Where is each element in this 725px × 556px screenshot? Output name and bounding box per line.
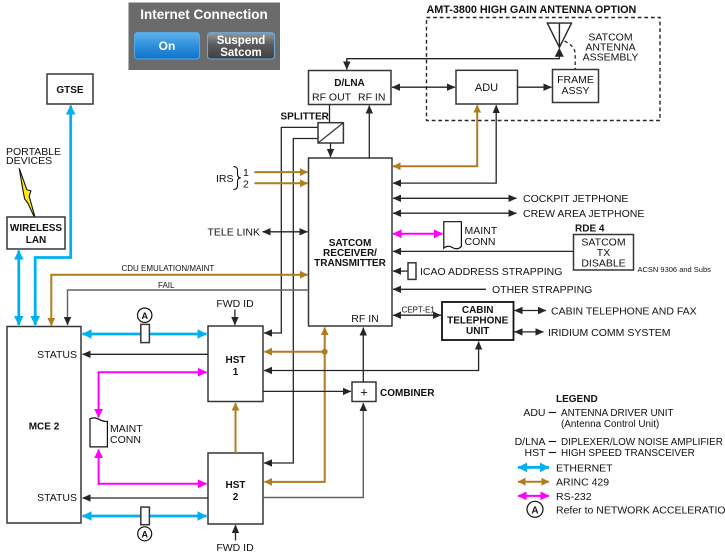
svg-text:A: A	[531, 505, 538, 516]
svg-text:Suspend: Suspend	[217, 35, 266, 47]
svg-text:IRIDIUM COMM SYSTEM: IRIDIUM COMM SYSTEM	[548, 327, 671, 339]
wire COMBINER to SATCOM RF IN	[362, 328, 364, 383]
svg-text:SPLITTER: SPLITTER	[281, 112, 330, 123]
svg-text:ANTENNA DRIVER UNIT: ANTENNA DRIVER UNIT	[561, 408, 673, 419]
svg-text:A: A	[141, 529, 148, 539]
wire cabin telephone and fax	[515, 310, 547, 312]
svg-text:D/LNA: D/LNA	[334, 78, 365, 89]
svg-text:2: 2	[233, 492, 239, 503]
svg-text:CABIN TELEPHONE AND FAX: CABIN TELEPHONE AND FAX	[551, 306, 697, 318]
svg-text:CONN: CONN	[110, 434, 141, 446]
svg-text:LAN: LAN	[26, 235, 47, 246]
svg-text:FWD ID: FWD ID	[216, 298, 254, 310]
wire RF OUT to splitter	[329, 105, 331, 123]
AMT-3800 dashed option box	[427, 18, 661, 121]
WIRELESS LAN box	[7, 217, 65, 249]
svg-text:COCKPIT JETPHONE: COCKPIT JETPHONE	[523, 193, 628, 205]
wire splitter line 2 to HST2	[264, 139, 318, 464]
svg-text:RDE 4: RDE 4	[575, 224, 605, 235]
legend arinc arrow	[518, 481, 549, 483]
wire CTU bottom to HST1	[264, 342, 479, 371]
wire FAIL	[68, 290, 309, 325]
wire HST1 to COMBINER	[263, 390, 351, 392]
svg-text:2: 2	[243, 179, 249, 191]
wire SATCOM right to ADU (arinc)	[393, 105, 477, 166]
svg-text:FAIL: FAIL	[158, 281, 175, 290]
svg-text:CREW AREA JETPHONE: CREW AREA JETPHONE	[523, 208, 644, 220]
arinc junction node	[322, 349, 328, 355]
legend rs-232 arrow	[518, 495, 549, 497]
svg-text:CEPT-E1: CEPT-E1	[402, 305, 436, 314]
wire SATCOM right to ADU (black)	[393, 105, 496, 183]
svg-text:Satcom: Satcom	[220, 47, 262, 59]
SPLITTER box	[318, 123, 343, 143]
svg-text:1: 1	[233, 367, 239, 378]
wire arinc junction down to HST2	[265, 352, 325, 482]
svg-text:Internet Connection: Internet Connection	[140, 7, 268, 22]
wire IRS 2	[254, 182, 307, 184]
ICAO connector	[408, 263, 416, 280]
svg-text:CONN: CONN	[465, 236, 496, 248]
svg-text:RF IN: RF IN	[351, 313, 378, 325]
wire cockpit jetphone	[393, 197, 517, 199]
ADU box	[456, 70, 518, 104]
wire SATCOM top to D/LNA RF IN	[368, 106, 370, 159]
wire TELE LINK	[263, 231, 308, 233]
wire crew area jetphone	[393, 212, 517, 214]
svg-text:ARINC 429: ARINC 429	[556, 477, 609, 489]
svg-text:FWD ID: FWD ID	[216, 542, 254, 554]
svg-text:ETHERNET: ETHERNET	[556, 463, 613, 475]
svg-text:DISABLE: DISABLE	[581, 258, 625, 270]
svg-text:ADU: ADU	[475, 82, 498, 94]
wire arinc junction up to SATCOM	[324, 328, 326, 352]
maint conn document (left)	[90, 418, 143, 447]
maint conn document (right)	[444, 222, 498, 249]
wire MCE2 to HST1 (ethernet)	[83, 333, 207, 336]
connector on ethernet 1	[141, 324, 150, 342]
wire MCE2 to HST2 (ethernet)	[83, 515, 207, 518]
svg-text:STATUS: STATUS	[37, 349, 77, 361]
svg-text:AMT-3800 HIGH GAIN ANTENNA OPT: AMT-3800 HIGH GAIN ANTENNA OPTION	[427, 4, 637, 16]
wire HST1 status to MCE2	[83, 353, 209, 355]
wire HST2 to COMBINER bottom	[263, 403, 363, 498]
svg-text:TRANSMITTER: TRANSMITTER	[314, 258, 386, 269]
svg-text:DEVICES: DEVICES	[6, 155, 52, 167]
PORTABLE DEVICES label	[6, 146, 61, 167]
svg-text:ACSN 9306 and Subs: ACSN 9306 and Subs	[638, 265, 712, 274]
svg-text:ICAO ADDRESS STRAPPING: ICAO ADDRESS STRAPPING	[420, 266, 562, 278]
svg-text:GTSE: GTSE	[56, 85, 84, 96]
wire wireless lan to GTSE (ethernet)	[35, 106, 70, 326]
svg-text:+: +	[360, 385, 368, 400]
wire D/LNA top to antenna	[347, 57, 560, 70]
legend circled A	[527, 501, 543, 517]
svg-text:UNIT: UNIT	[466, 326, 489, 337]
svg-text:LEGEND: LEGEND	[556, 394, 598, 405]
wire iridium	[515, 331, 544, 333]
D/LNA box	[309, 71, 392, 105]
svg-text:HST: HST	[226, 355, 246, 366]
LEGEND	[515, 394, 723, 459]
svg-text:DIPLEXER/LOW NOISE AMPLIFIER: DIPLEXER/LOW NOISE AMPLIFIER	[561, 437, 723, 448]
SATCOM TX DISABLE box	[574, 235, 634, 271]
wire satcom tx disable	[393, 250, 574, 252]
FWD ID arrow into HST2	[235, 525, 237, 541]
antenna symbol	[547, 23, 571, 47]
svg-text:OTHER STRAPPING: OTHER STRAPPING	[492, 284, 592, 296]
internet connection panel	[129, 3, 281, 71]
svg-text:TELE LINK: TELE LINK	[208, 227, 261, 239]
CABIN TELEPHONE UNIT box	[442, 302, 514, 340]
wire other strapping	[393, 288, 486, 290]
svg-text:HIGH SPEED TRANSCEIVER: HIGH SPEED TRANSCEIVER	[561, 448, 695, 459]
wire CDU emulation (arinc)	[51, 275, 307, 326]
Suspend Satcom button	[208, 33, 275, 60]
wire ADU to FRAME ASSY	[518, 86, 552, 88]
wire HST2 status to MCE2	[83, 497, 209, 499]
wire arinc junction to HST1	[265, 351, 325, 353]
HST 2 box	[208, 453, 263, 524]
wire splitter line 1 to HST1	[264, 127, 318, 333]
SATCOM ANTENNA ASSEMBLY label	[583, 32, 639, 64]
wire ICAO	[393, 270, 408, 272]
svg-text:RF IN: RF IN	[358, 92, 385, 104]
svg-text:HST: HST	[525, 447, 547, 459]
circled A bottom	[138, 527, 152, 541]
lightning bolt	[19, 168, 36, 221]
svg-text:IRS: IRS	[216, 173, 234, 185]
svg-text:A: A	[141, 311, 148, 321]
svg-text:STATUS: STATUS	[37, 492, 77, 504]
circled A top	[138, 308, 152, 322]
svg-text:ASSY: ASSY	[561, 85, 589, 97]
wire D/LNA to ADU	[392, 86, 455, 88]
svg-text:WIRELESS: WIRELESS	[10, 223, 63, 234]
svg-text:On: On	[159, 39, 176, 53]
svg-text:ASSEMBLY: ASSEMBLY	[583, 51, 639, 63]
wire RS232 to HST1	[99, 372, 207, 417]
wire HST2 top to HST1 bottom (arinc)	[235, 403, 237, 453]
connector on ethernet 2	[141, 507, 150, 525]
dashed link antenna to frame assy	[565, 41, 576, 69]
svg-text:RS-232: RS-232	[556, 491, 592, 503]
svg-text:1: 1	[243, 167, 249, 179]
IRS label and brace	[216, 167, 249, 191]
svg-text:CDU EMULATION/MAINT: CDU EMULATION/MAINT	[122, 264, 215, 273]
wire RS232 maint conn right	[393, 233, 443, 235]
svg-text:COMBINER: COMBINER	[380, 388, 435, 399]
svg-text:TELEPHONE: TELEPHONE	[447, 316, 508, 327]
svg-text:RF OUT: RF OUT	[312, 92, 352, 104]
SATCOM RECEIVER/TRANSMITTER box	[309, 158, 393, 326]
COMBINER box	[352, 382, 435, 402]
svg-text:CABIN: CABIN	[462, 305, 494, 316]
GTSE box	[47, 74, 93, 104]
legend ethernet arrow	[518, 466, 549, 469]
svg-text:ADU: ADU	[523, 407, 545, 419]
svg-text:MCE 2: MCE 2	[29, 422, 60, 433]
svg-text:Refer to NETWORK ACCELERATION: Refer to NETWORK ACCELERATION	[556, 504, 725, 516]
wire IRS 1	[254, 171, 307, 173]
FRAME ASSY box	[553, 70, 599, 103]
svg-text:HST: HST	[226, 480, 246, 491]
wire splitter to SATCOM top	[330, 143, 332, 157]
FWD ID arrow into HST1	[234, 310, 236, 326]
svg-text:(Antenna Control Unit): (Antenna Control Unit)	[561, 419, 659, 430]
MCE 2 box	[7, 327, 81, 524]
On button	[135, 33, 200, 60]
HST 1 box	[208, 326, 263, 402]
wire wireless lan to MCE2 (ethernet)	[17, 251, 20, 326]
wire CEPT-E1	[393, 314, 441, 316]
wire RS232 to HST2	[99, 450, 207, 484]
